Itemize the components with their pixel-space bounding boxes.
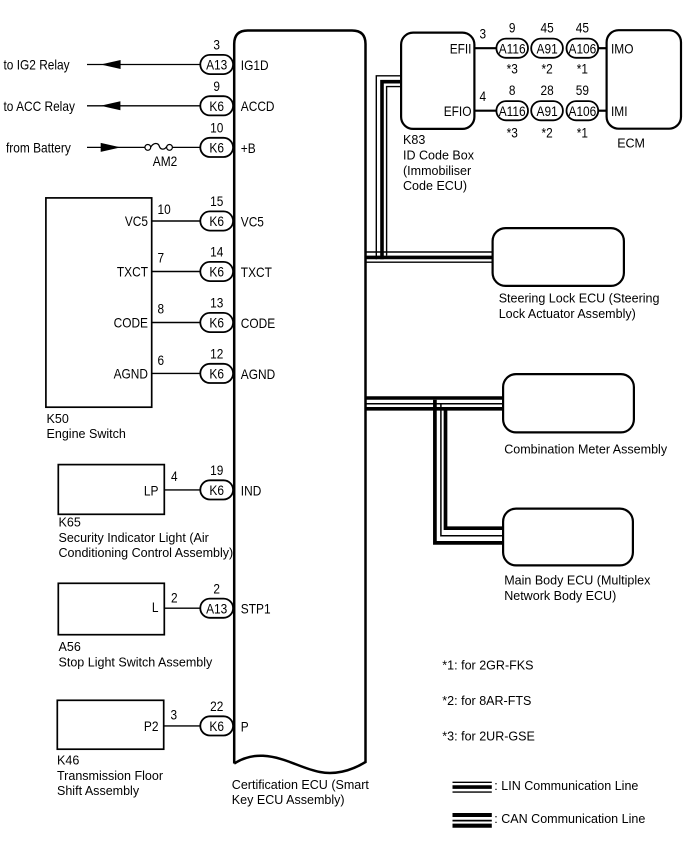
svg-text:VC5: VC5 [241, 213, 264, 229]
svg-text:Network Body ECU): Network Body ECU) [504, 588, 616, 603]
svg-text:Combination Meter Assembly: Combination Meter Assembly [504, 442, 667, 457]
svg-text:Stop Light Switch Assembly: Stop Light Switch Assembly [59, 654, 213, 669]
svg-text:4: 4 [480, 88, 487, 104]
svg-text:22: 22 [210, 698, 223, 714]
svg-text:2: 2 [171, 589, 178, 605]
svg-text:Shift Assembly: Shift Assembly [57, 783, 139, 798]
svg-text:STP1: STP1 [241, 601, 271, 617]
svg-text:P: P [241, 718, 249, 734]
svg-text:9: 9 [509, 19, 516, 35]
svg-text:*2: for 8AR-FTS: *2: for 8AR-FTS [442, 693, 531, 708]
svg-text:12: 12 [210, 346, 223, 362]
svg-text:*3: *3 [507, 60, 518, 76]
svg-text:Transmission Floor: Transmission Floor [57, 768, 164, 783]
svg-text:*3: for 2UR-GSE: *3: for 2UR-GSE [442, 729, 535, 744]
svg-text:AM2: AM2 [153, 153, 178, 169]
svg-text:LP: LP [144, 482, 159, 498]
svg-text:45: 45 [541, 19, 554, 35]
svg-text:IMI: IMI [611, 103, 628, 119]
svg-text:*1: *1 [577, 125, 588, 141]
svg-text:7: 7 [158, 250, 165, 266]
svg-text:10: 10 [210, 120, 223, 136]
svg-text:K6: K6 [209, 264, 224, 280]
svg-text:A91: A91 [537, 40, 558, 56]
svg-text:A13: A13 [206, 600, 227, 616]
svg-text:K6: K6 [209, 140, 224, 156]
svg-text:3: 3 [480, 26, 487, 42]
svg-text:A116: A116 [499, 40, 526, 56]
svg-text:AGND: AGND [241, 366, 275, 382]
svg-text:EFII: EFII [450, 41, 472, 57]
svg-text:3: 3 [213, 37, 220, 53]
svg-text:K83: K83 [403, 132, 425, 147]
svg-text:Engine Switch: Engine Switch [47, 426, 126, 441]
svg-text:Certification ECU (Smart: Certification ECU (Smart [232, 777, 369, 792]
svg-text:IND: IND [241, 482, 261, 498]
svg-text:Main Body ECU (Multiplex: Main Body ECU (Multiplex [504, 573, 651, 588]
svg-text:Steering Lock ECU (Steering: Steering Lock ECU (Steering [499, 291, 660, 306]
svg-text:A13: A13 [206, 57, 227, 73]
svg-text:*1: for 2GR-FKS: *1: for 2GR-FKS [442, 657, 533, 672]
svg-text:K65: K65 [59, 515, 81, 530]
svg-text:A106: A106 [569, 40, 597, 56]
svg-text:6: 6 [158, 352, 165, 368]
svg-text:CODE: CODE [114, 315, 148, 331]
svg-text:P2: P2 [144, 718, 159, 734]
svg-text:A91: A91 [537, 103, 558, 119]
svg-text:ECM: ECM [617, 136, 645, 151]
svg-text:59: 59 [576, 82, 589, 98]
svg-text:8: 8 [158, 301, 165, 317]
svg-text:: CAN Communication Line: : CAN Communication Line [494, 811, 645, 826]
svg-text:EFIO: EFIO [444, 103, 472, 119]
svg-text:K50: K50 [47, 411, 69, 426]
svg-text:from Battery: from Battery [6, 140, 71, 156]
svg-text:K6: K6 [209, 482, 224, 498]
svg-text:IG1D: IG1D [241, 57, 269, 73]
svg-text:28: 28 [541, 82, 554, 98]
svg-text:*2: *2 [542, 60, 553, 76]
svg-text:*2: *2 [542, 125, 553, 141]
svg-text:K6: K6 [209, 98, 224, 114]
svg-text:AGND: AGND [114, 366, 148, 382]
svg-text:3: 3 [171, 707, 178, 723]
svg-text:L: L [152, 599, 159, 615]
svg-text:A106: A106 [569, 103, 597, 119]
svg-text:45: 45 [576, 19, 589, 35]
svg-text:TXCT: TXCT [241, 264, 272, 280]
svg-text:K6: K6 [209, 366, 224, 382]
svg-text:(Immobiliser: (Immobiliser [403, 163, 472, 178]
svg-text:Key ECU Assembly): Key ECU Assembly) [232, 792, 345, 807]
svg-text:+B: +B [241, 140, 256, 156]
svg-text:VC5: VC5 [125, 213, 148, 229]
svg-text:K6: K6 [209, 315, 224, 331]
svg-text:CODE: CODE [241, 315, 275, 331]
svg-text:19: 19 [210, 462, 223, 478]
svg-text:Security Indicator Light (Air: Security Indicator Light (Air [59, 530, 210, 545]
svg-text:Code ECU): Code ECU) [403, 178, 467, 193]
svg-text:2: 2 [213, 580, 220, 596]
svg-text:ID Code Box: ID Code Box [403, 148, 474, 163]
svg-text:to IG2 Relay: to IG2 Relay [4, 57, 70, 73]
svg-text:15: 15 [210, 193, 223, 209]
svg-text:A116: A116 [499, 103, 526, 119]
svg-text:A56: A56 [59, 639, 81, 654]
svg-text:to ACC Relay: to ACC Relay [4, 98, 75, 114]
svg-text:13: 13 [210, 295, 223, 311]
svg-text:: LIN Communication Line: : LIN Communication Line [494, 778, 638, 793]
svg-text:K6: K6 [209, 213, 224, 229]
svg-text:*1: *1 [577, 60, 588, 76]
svg-text:IMO: IMO [611, 41, 634, 57]
svg-text:K6: K6 [209, 718, 224, 734]
svg-text:Conditioning Control Assembly): Conditioning Control Assembly) [59, 545, 234, 560]
svg-text:9: 9 [213, 78, 220, 94]
svg-text:Lock Actuator Assembly): Lock Actuator Assembly) [499, 306, 636, 321]
svg-text:K46: K46 [57, 753, 79, 768]
svg-text:ACCD: ACCD [241, 98, 275, 114]
svg-text:14: 14 [210, 244, 223, 260]
svg-text:8: 8 [509, 82, 516, 98]
svg-text:TXCT: TXCT [117, 264, 148, 280]
svg-text:4: 4 [171, 468, 178, 484]
svg-text:10: 10 [158, 201, 171, 217]
svg-text:*3: *3 [507, 125, 518, 141]
